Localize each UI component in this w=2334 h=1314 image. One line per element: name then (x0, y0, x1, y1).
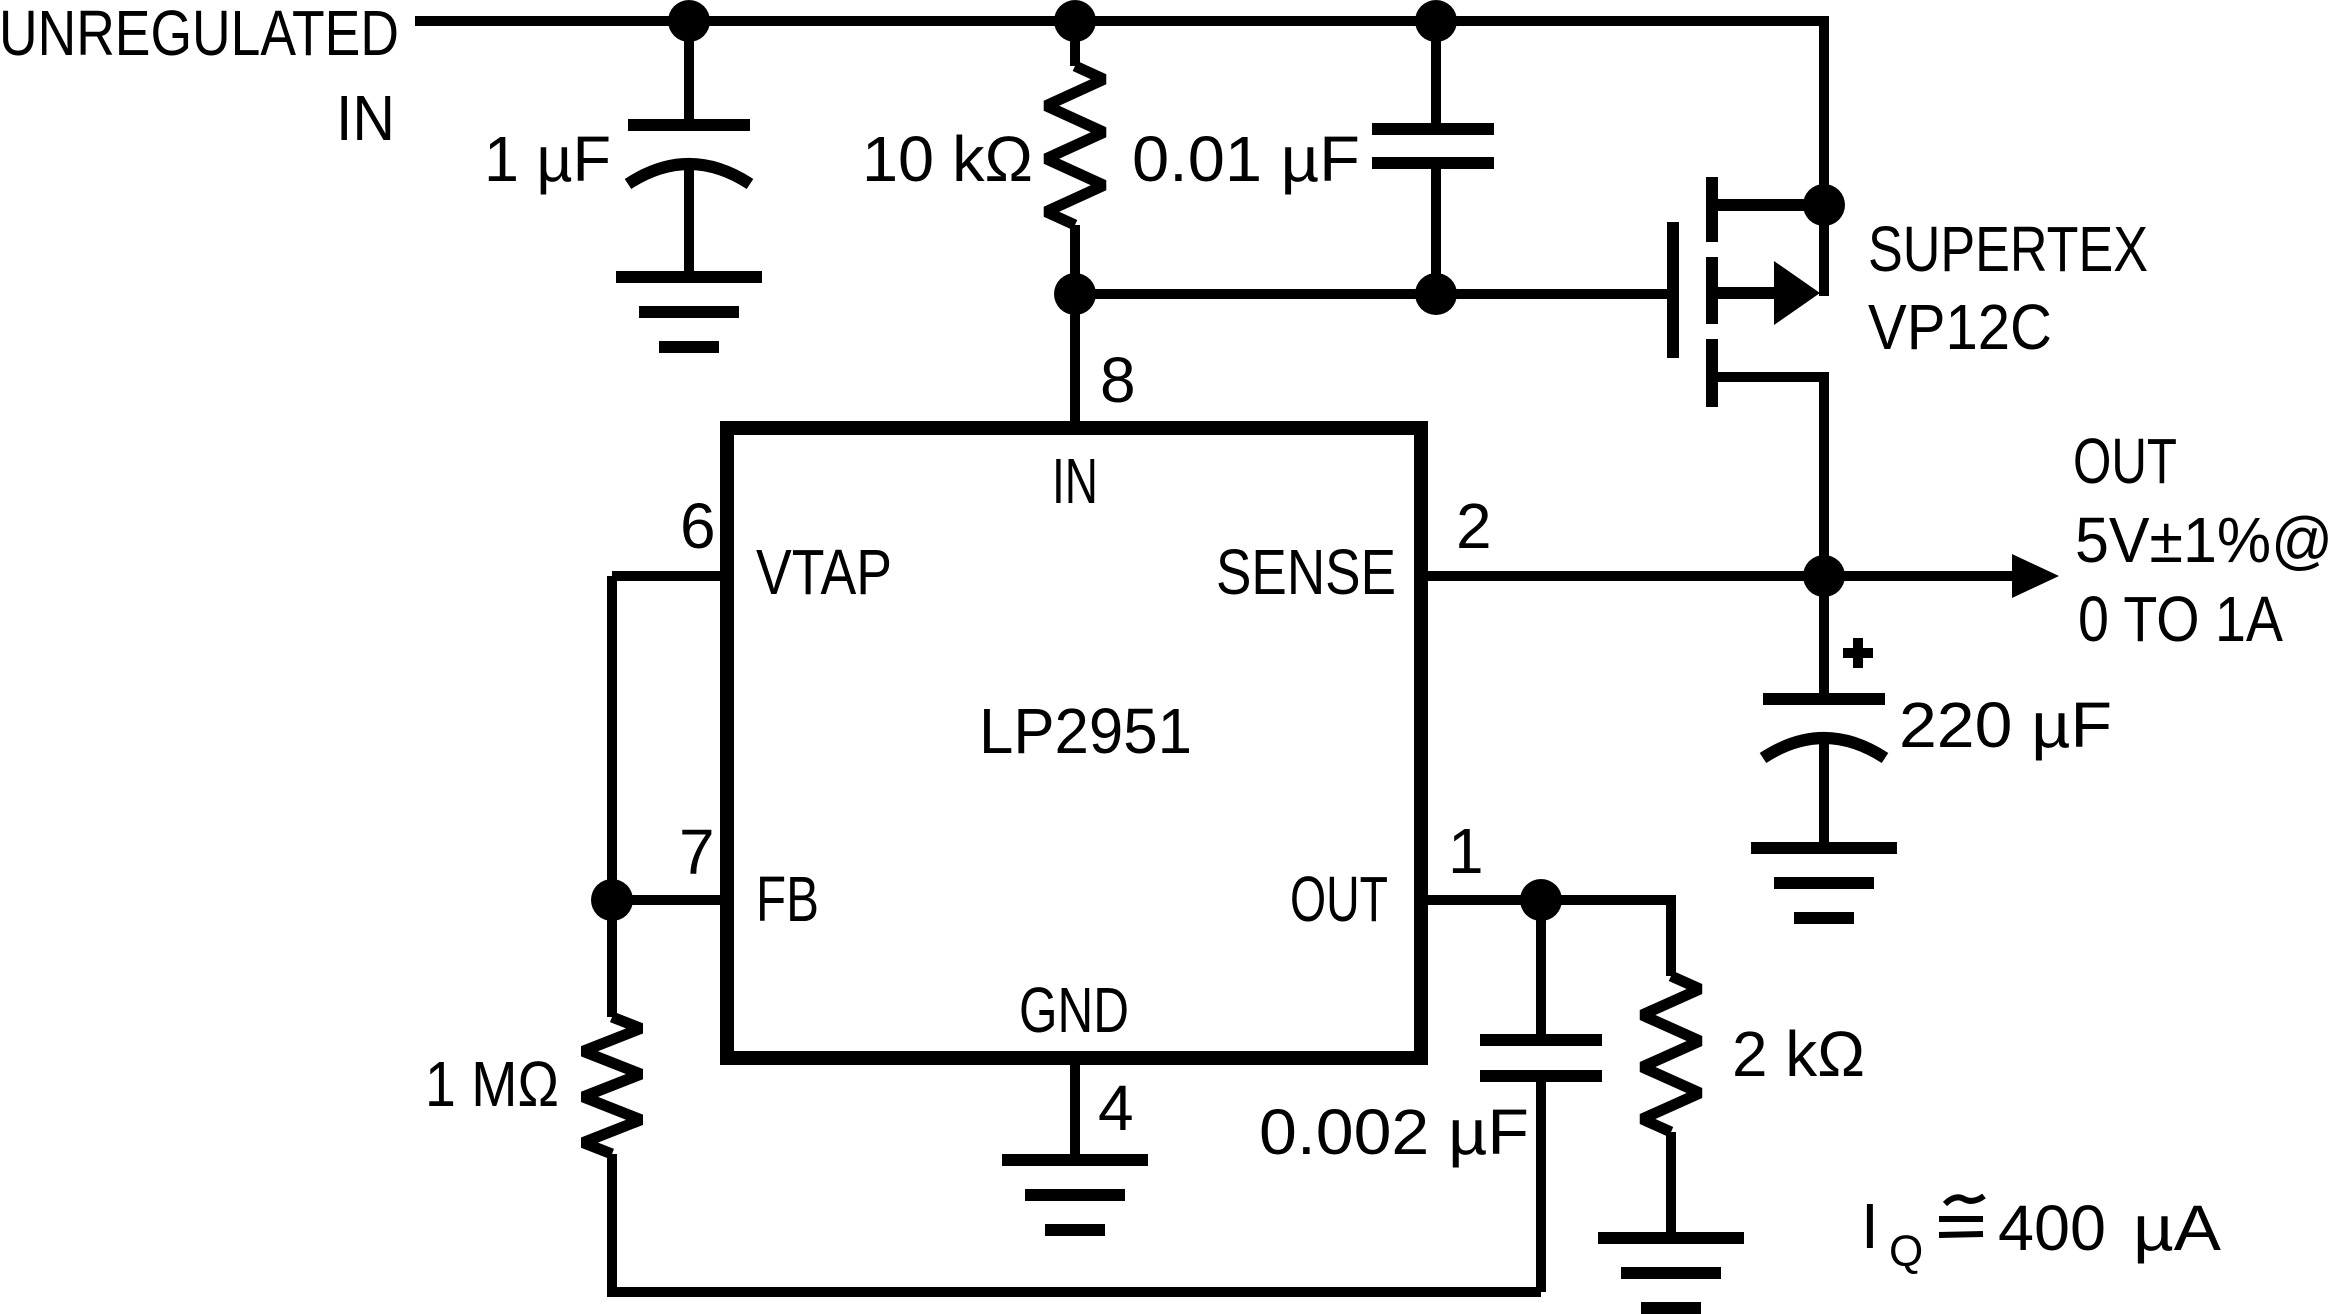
svg-text:IN: IN (1052, 446, 1098, 517)
svg-text:UNREGULATED: UNREGULATED (0, 0, 399, 69)
svg-text:1 µF: 1 µF (484, 124, 611, 195)
wire: 0.002uF top stub (1536, 900, 1546, 1046)
wire: 0.01uF cap bottom stub (1431, 166, 1441, 294)
svg-text:2: 2 (1456, 490, 1492, 562)
channel dash bottom (1706, 339, 1718, 407)
svg-text:1 MΩ: 1 MΩ (425, 1048, 559, 1120)
transistor Q1 SUPERTEX VP12C p-channel MOSFET (1673, 177, 1824, 407)
node label OUT 5V 1% 0 TO 1A (2073, 426, 2333, 655)
body arrow head (1774, 261, 1820, 325)
svg-text:SUPERTEX: SUPERTEX (1868, 214, 2148, 285)
resistor 1 MOhm (583, 1017, 641, 1154)
svg-text:0.01 µF: 0.01 µF (1132, 123, 1360, 194)
node junction dot at top rail / 1uF (668, 0, 710, 42)
wire: 220uF bottom stub (1819, 735, 1829, 848)
node junction dot at OUT pin node (1520, 879, 1562, 921)
part label SUPERTEX VP12C (1868, 214, 2148, 363)
svg-text:0.002 µF: 0.002 µF (1259, 1096, 1529, 1168)
channel dash top (1706, 177, 1718, 242)
capacitor 220 uF (1763, 699, 1885, 758)
node junction dot at top rail / 10k (1054, 0, 1096, 42)
wire: 0.002uF bottom stub (1536, 1070, 1546, 1292)
wire: OUT pin 1 rail (1428, 900, 1671, 976)
svg-text:400: 400 (1998, 1192, 2106, 1264)
wire: GND pin 4 stub (1070, 1051, 1080, 1160)
wire: 10k resistor top stub (1070, 21, 1080, 66)
wire: VTAP pin 6 wire (612, 571, 734, 581)
svg-text:8: 8 (1100, 344, 1136, 416)
svg-text:10 kΩ: 10 kΩ (862, 123, 1033, 195)
wire: gate node rail (1075, 289, 1668, 299)
svg-text:5V±1%@: 5V±1%@ (2075, 505, 2333, 577)
plus sign of 220uF polarity (1843, 638, 1873, 668)
svg-text:2 kΩ: 2 kΩ (1732, 1018, 1865, 1090)
node junction dot at MOSFET source (1803, 184, 1845, 226)
svg-text:IN: IN (336, 83, 395, 155)
wire: left vertical VTAP-FB-1M (607, 576, 617, 1017)
IC U1 LP2951 regulator box (727, 428, 1421, 1058)
body arrow shaft (1712, 287, 1776, 299)
svg-text:6: 6 (680, 490, 716, 562)
wire: IN pin 8 stub (1070, 294, 1080, 435)
node junction dot at output node (1803, 555, 1845, 597)
output arrow head (2012, 554, 2059, 598)
wire: 1uF cap top stub (684, 21, 694, 128)
ground (below 1uF) (616, 277, 762, 347)
wire: 0.01uF cap top stub (1431, 21, 1441, 132)
svg-text:0 TO 1A: 0 TO 1A (2078, 583, 2283, 655)
resistor 10 kOhm (1046, 66, 1104, 225)
node label UNREGULATED IN (0, 0, 399, 155)
wire: unregulated input top rail (415, 21, 1824, 296)
capacitor 0.01 uF (1372, 129, 1494, 163)
wire: 2k resistor bottom stub (1666, 1132, 1676, 1238)
svg-text:SENSE: SENSE (1216, 537, 1396, 608)
note label IQ = 400 uA (1861, 1190, 2221, 1276)
ground (below 220uF) (1751, 848, 1897, 918)
ground (below 2k) (1598, 1238, 1744, 1308)
ground (pin 4 GND) (1002, 1160, 1148, 1230)
node junction dot at gate rail / 0.01uF (1415, 273, 1457, 315)
source bar (1712, 199, 1824, 211)
wire: 220uF top stub (1819, 576, 1829, 702)
resistor 2 kOhm (1642, 976, 1700, 1132)
node junction dot at gate rail / 10k (1054, 273, 1096, 315)
wire: MOSFET drain to output node (1712, 377, 1824, 576)
wire: FB pin 7 wire (612, 895, 734, 905)
svg-text:7: 7 (679, 816, 715, 888)
capacitor 1 uF (628, 125, 750, 184)
svg-text:GND: GND (1019, 975, 1129, 1047)
svg-text:VP12C: VP12C (1868, 291, 2052, 362)
svg-text:OUT: OUT (2073, 426, 2177, 498)
svg-text:LP2951: LP2951 (979, 696, 1192, 767)
wire: 1uF cap bottom stub (684, 166, 694, 277)
svg-text:FB: FB (756, 864, 819, 936)
svg-text:OUT: OUT (1290, 863, 1388, 935)
svg-text:Q: Q (1889, 1227, 1923, 1276)
svg-text:I: I (1861, 1190, 1879, 1262)
svg-text:4: 4 (1098, 1072, 1134, 1144)
wire: 1M resistor bottom to bottom rail (612, 1154, 1541, 1292)
svg-text:220 µF: 220 µF (1899, 689, 2112, 761)
node junction dot at FB node (591, 879, 633, 921)
channel dash middle (1706, 257, 1718, 324)
svg-text:1: 1 (1448, 815, 1484, 887)
node junction dot at top rail / 0.01uF (1415, 0, 1457, 42)
svg-text:µA: µA (2133, 1193, 2221, 1264)
wire: SENSE pin 2 rail to output arrow (1428, 571, 2013, 581)
gate bar (1667, 222, 1679, 358)
svg-text:VTAP: VTAP (756, 537, 892, 609)
wire: 10k resistor bottom stub (1070, 225, 1080, 294)
capacitor 0.002 uF (1480, 1040, 1602, 1076)
